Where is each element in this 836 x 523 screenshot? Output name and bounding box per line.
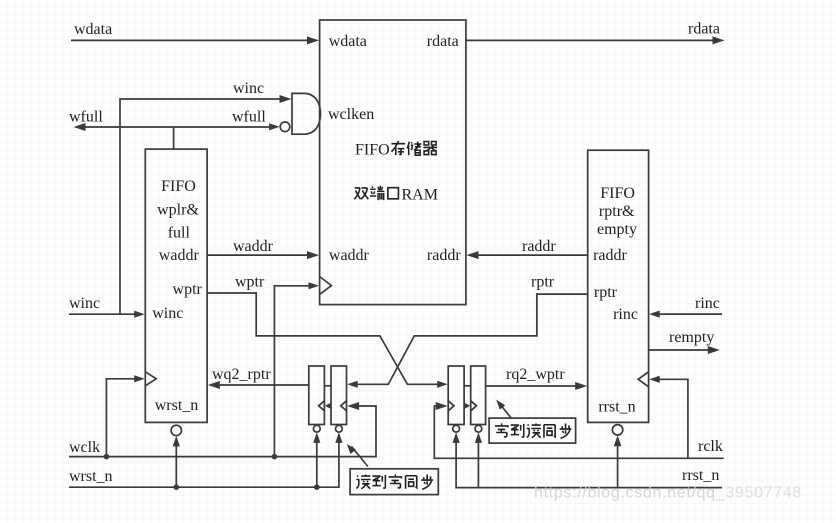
- wire wrst_n main run rising to FF2 reset bubble: [69, 439, 339, 487]
- svg-text:wptr: wptr: [173, 281, 203, 298]
- callout box (write-to-read sync): [489, 418, 575, 443]
- arrow up into FF1 bubble: [313, 432, 320, 443]
- clock triangle right FIFO: [638, 372, 648, 387]
- arrow winc into left FIFO: [134, 311, 145, 318]
- arrow up into right FIFO bubble: [614, 435, 622, 446]
- svg-text:winc: winc: [69, 295, 100, 312]
- svg-text:rclk: rclk: [698, 438, 723, 455]
- svg-text:wclken: wclken: [328, 106, 374, 123]
- svg-text:FIFO: FIFO: [355, 142, 390, 159]
- svg-text:https://blog.csdn.net/qq_39507: https://blog.csdn.net/qq_39507748: [534, 485, 802, 502]
- wire wrst_n riser to left FIFO reset: [175, 442, 177, 487]
- callout text: read-to-write sync (du dao xie tong bu): [356, 475, 433, 490]
- wire callout arrow shaft (write-to-read sync): [501, 405, 512, 418]
- arrow wq2_rptr into left FIFO (points left): [208, 381, 220, 389]
- reset bubble FF4: [475, 425, 482, 432]
- wire waddr from left FIFO to RAM: [207, 254, 312, 256]
- svg-text:rdata: rdata: [427, 33, 459, 50]
- clock triangle FF3: [448, 401, 454, 411]
- wire rclk main run with riser to FF3 clock: [434, 406, 723, 458]
- svg-text:rptr&: rptr&: [599, 203, 635, 220]
- sync flip-flop FF3 (right pair, left): [448, 366, 464, 425]
- svg-text:raddr: raddr: [593, 247, 627, 264]
- svg-text:wplr&: wplr&: [157, 202, 199, 219]
- wire link FF1-FF2 data: [324, 385, 331, 387]
- svg-text:rdata: rdata: [688, 21, 720, 38]
- clock triangle left FIFO: [145, 372, 156, 386]
- wire gap clock feed FF4: [464, 405, 466, 407]
- arrow rinc into right FIFO (points left): [649, 311, 660, 318]
- right FIFO block U3 (read pointer & empty): [588, 150, 649, 422]
- wire rptr from right FIFO to left sync pair (crossing): [354, 294, 588, 384]
- svg-text:wrst_n: wrst_n: [155, 397, 199, 414]
- arrow wclk into left FIFO clock: [134, 375, 145, 382]
- wire raddr from right FIFO to RAM: [474, 254, 588, 256]
- wire wclk riser to RAM write clock: [274, 286, 312, 457]
- arrow rptr into FF2 (points left): [347, 381, 358, 388]
- svg-text:winc: winc: [152, 305, 183, 322]
- svg-text:rinc: rinc: [613, 306, 638, 323]
- svg-text:raddr: raddr: [522, 238, 556, 255]
- wire rclk riser to right FIFO clock: [655, 379, 688, 458]
- reset bubble right FIFO: [612, 425, 622, 435]
- svg-text:wfull: wfull: [232, 109, 266, 126]
- arrow up into FF4 bubble: [475, 432, 482, 443]
- junction wclk / left FIFO clock riser: [104, 454, 110, 460]
- arrow up into FF3 bubble: [453, 432, 460, 443]
- clock triangle FF2: [341, 401, 347, 411]
- clock triangle FF1: [319, 401, 325, 411]
- wire wfull line (external arrow to gate bubble): [81, 126, 272, 128]
- RAM block U1 (FIFO dual-port RAM): [320, 20, 466, 305]
- wire rinc input: [655, 313, 722, 315]
- sync flip-flop FF1 (left pair, left): [309, 366, 325, 425]
- reset bubble FF2: [336, 425, 343, 432]
- svg-text:full: full: [168, 225, 191, 242]
- ARROWHEADS: [74, 36, 725, 454]
- arrow rdata output: [713, 36, 725, 44]
- arrow winc into gate: [280, 95, 292, 103]
- svg-text:waddr: waddr: [329, 247, 370, 264]
- svg-text:FIFO: FIFO: [600, 185, 635, 202]
- svg-text:rptr: rptr: [594, 284, 618, 301]
- svg-text:rinc: rinc: [695, 295, 720, 312]
- RAM title: FIFO + CJK (cun chu qi): [355, 141, 437, 159]
- arrow callout write-to-read sync (points up-left): [496, 400, 505, 410]
- left FIFO block U2 (write pointer & full): [145, 149, 207, 422]
- reset bubble FF3: [453, 425, 460, 432]
- arrow rclk into FF3 clock: [436, 402, 448, 410]
- wire wfull stub from left FIFO top: [173, 127, 175, 149]
- wire callout arrow shaft (read-to-write sync): [352, 447, 368, 467]
- sync flip-flop FF2 (left pair, right): [331, 366, 347, 425]
- wire rrst_n riser to FF4 reset: [477, 439, 479, 488]
- svg-text:rrst_n: rrst_n: [682, 467, 719, 484]
- callout box (read-to-write sync): [350, 469, 438, 495]
- wire gap clock feed FF1: [329, 405, 331, 407]
- RAM subtitle: CJK (shuang duan kou) + RAM: [354, 186, 438, 204]
- wire wq2_rptr from FF1 to left FIFO: [215, 384, 309, 386]
- svg-text:wclk: wclk: [69, 439, 100, 456]
- arrow wfull into gate bubble: [269, 123, 280, 130]
- reset bubble left FIFO: [171, 425, 181, 435]
- junction wclk / RAM clock riser: [272, 454, 278, 460]
- wire wclk main run with riser to FF2 clock: [69, 406, 376, 457]
- wire wdata input: [71, 39, 312, 41]
- svg-text:waddr: waddr: [233, 238, 274, 255]
- svg-text:rempty: rempty: [669, 329, 714, 346]
- junction wrst_n / left FIFO reset riser: [174, 484, 180, 490]
- arrow up into FF2 bubble: [335, 432, 342, 443]
- wire wptr from left FIFO to right sync pair (crossing): [207, 293, 441, 384]
- arrow gap clock into FF1 (points left): [325, 403, 331, 409]
- arrow wrst_n up into left FIFO bubble: [173, 436, 180, 447]
- JUNCTION DOTS: [104, 454, 320, 490]
- svg-text:wfull: wfull: [69, 109, 103, 126]
- svg-text:rq2_wptr: rq2_wptr: [506, 366, 565, 383]
- svg-text:wptr: wptr: [235, 274, 265, 291]
- wire rrst_n riser to right FIFO reset: [617, 442, 619, 488]
- arrow raddr into RAM (points left): [467, 251, 479, 259]
- svg-text:raddr: raddr: [427, 247, 461, 264]
- wire rdata output: [466, 39, 716, 41]
- wire rrst_n main run rising to FF3 reset bubble: [456, 439, 722, 488]
- clock triangle FF4: [471, 401, 477, 411]
- arrow wdata into RAM: [307, 36, 319, 44]
- arrow wclk into RAM clock: [309, 282, 320, 289]
- arrow wfull output (points left): [74, 123, 86, 131]
- svg-text:wdata: wdata: [329, 33, 367, 50]
- reset bubble FF1: [313, 425, 320, 432]
- wire wclk riser to left FIFO clock: [106, 379, 138, 457]
- svg-text:waddr: waddr: [159, 247, 200, 264]
- arrow wptr into FF3: [437, 381, 448, 388]
- arrow rclk into right FIFO clock (points left): [649, 376, 660, 383]
- wire wrst_n riser to FF1 reset: [316, 439, 318, 488]
- svg-text:wq2_rptr: wq2_rptr: [212, 366, 271, 383]
- wire rempty output: [649, 349, 712, 351]
- gate G1 inverted-input bubble: [280, 122, 290, 132]
- callout text: write-to-read sync (xie dao du tong bu): [495, 424, 571, 439]
- junction wrst_n / FF1 reset riser: [314, 484, 320, 490]
- wire rq2_wptr from FF4 to right FIFO: [486, 385, 581, 387]
- svg-text:rptr: rptr: [531, 274, 555, 291]
- arrow callout read-to-write sync (points up-left): [347, 444, 356, 454]
- svg-text:wrst_n: wrst_n: [69, 468, 113, 485]
- arrow waddr into RAM: [307, 251, 319, 259]
- arrow gap clock into FF4: [464, 403, 470, 409]
- svg-text:wdata: wdata: [74, 21, 112, 38]
- svg-text:rrst_n: rrst_n: [598, 399, 635, 416]
- wire link FF3-FF4 data: [464, 385, 471, 387]
- and-gate G1 body: [292, 93, 321, 134]
- arrow wclk into FF2 clock (points left): [347, 402, 359, 410]
- arrow rempty output: [708, 346, 720, 354]
- arrow rq2_wptr into right FIFO: [575, 382, 587, 390]
- wire winc to gate, with branch down to winc input: [120, 99, 285, 314]
- wire winc left input: [69, 313, 138, 315]
- svg-text:winc: winc: [233, 80, 264, 97]
- svg-text:RAM: RAM: [402, 187, 438, 204]
- sync flip-flop FF4 (right pair, right): [471, 366, 486, 425]
- svg-text:FIFO: FIFO: [161, 178, 196, 195]
- clock triangle RAM write port: [320, 277, 332, 295]
- svg-text:empty: empty: [597, 221, 637, 238]
